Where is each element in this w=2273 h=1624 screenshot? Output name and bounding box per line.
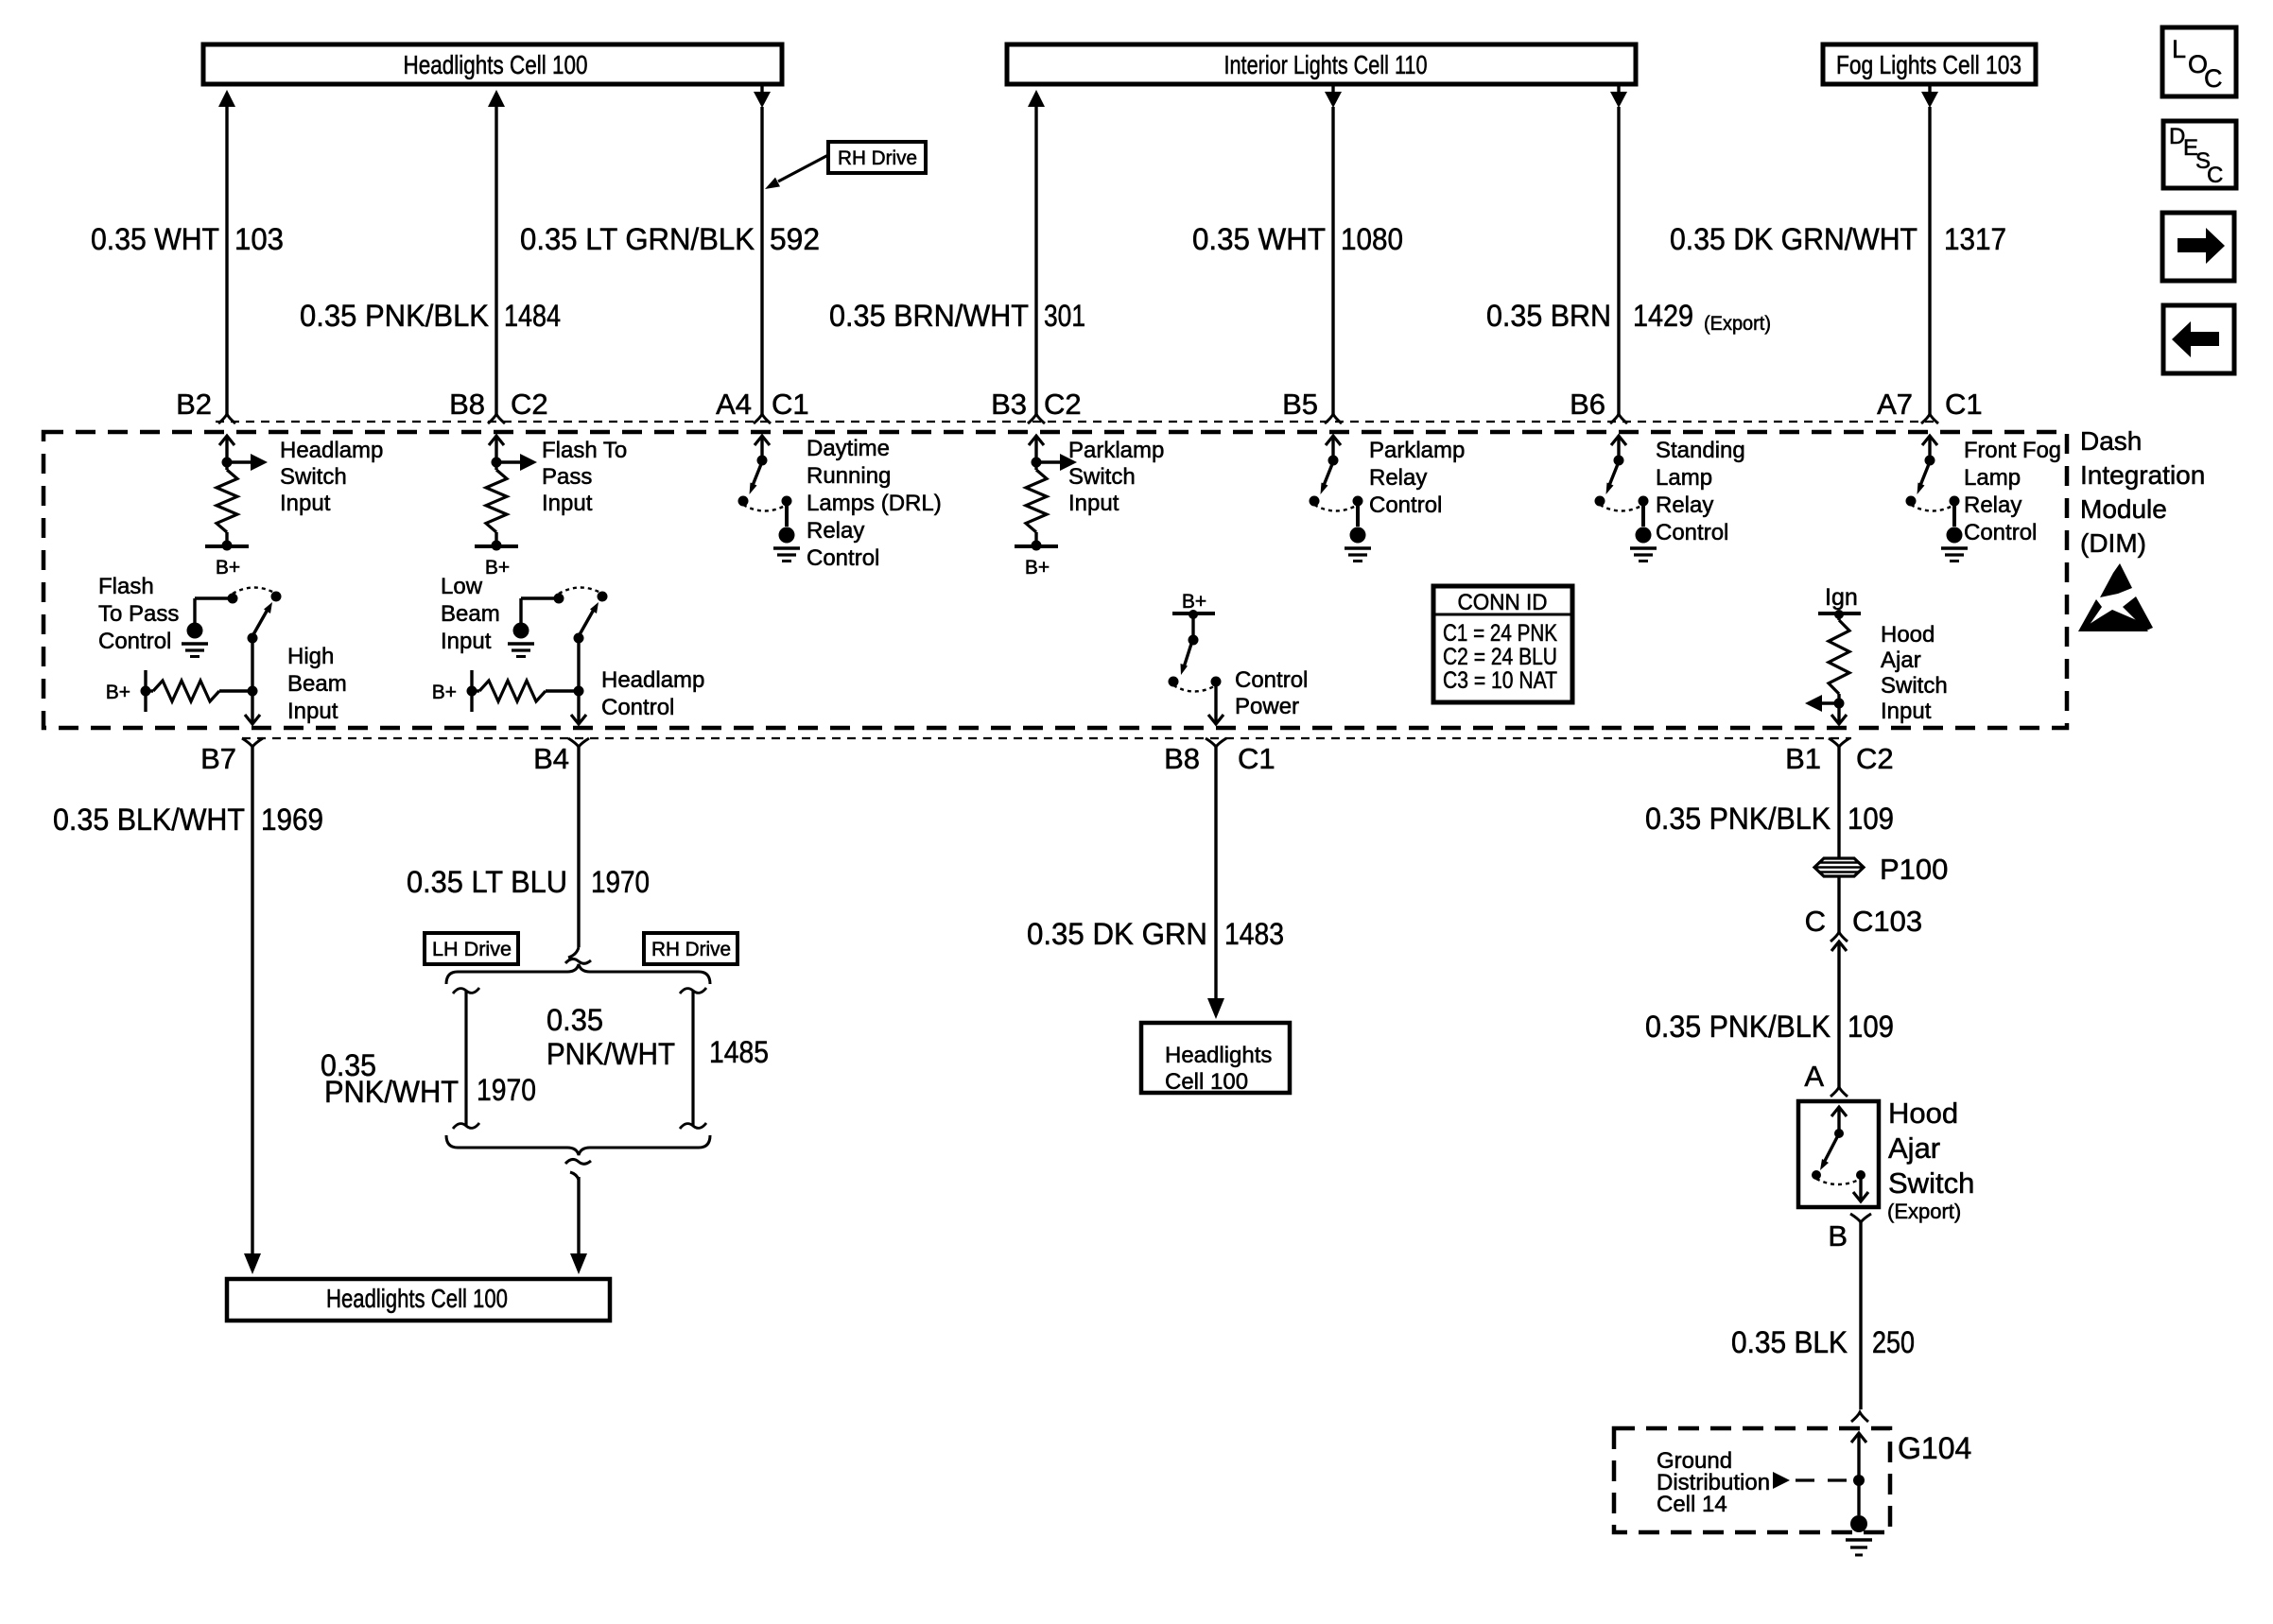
svg-text:A7: A7: [1877, 388, 1913, 421]
text: Headlamp Switch Input: [280, 438, 383, 516]
box: Hood Ajar Switch: [1798, 1101, 1879, 1207]
svg-text:Headlights: Headlights: [1165, 1043, 1272, 1068]
svg-text:Input: Input: [287, 699, 338, 724]
svg-text:1429: 1429: [1633, 299, 1693, 333]
wire label 0.35 DK GRN 1483: [1027, 917, 1284, 951]
svg-text:Module: Module: [2080, 494, 2167, 524]
pin label(s) B8/C1: [1164, 742, 1275, 775]
svg-text:C2: C2: [1856, 742, 1894, 775]
svg-text:Relay: Relay: [1369, 465, 1427, 491]
svg-text:(Export): (Export): [1704, 313, 1771, 335]
svg-text:B3: B3: [991, 388, 1027, 421]
wire from brace to Headlights Cell 100: [565, 1159, 591, 1274]
box: Headlights Cell 100 (top): [203, 44, 782, 84]
connector fork at hood ajar switch pin B: [1850, 1214, 1871, 1222]
svg-text:Relay: Relay: [807, 518, 864, 544]
wire label 0.35 BLK/WHT 1969: [53, 803, 323, 837]
wire B1/C2 down to P100: [1837, 747, 1840, 858]
svg-text:Ajar: Ajar: [1881, 648, 1921, 673]
svg-text:Input: Input: [542, 491, 593, 516]
svg-text:C1: C1: [772, 388, 809, 421]
ground distribution wire and arrow: [1773, 1433, 1866, 1489]
front fog lamp relay control (A7/C1): switch to ground: [1906, 436, 1969, 561]
svg-text:C3 = 10 NAT: C3 = 10 NAT: [1443, 667, 1557, 694]
connector fork at DIM top for B3C2: [1028, 414, 1045, 423]
pin label(s) B4: [533, 742, 569, 775]
pin label(s) B3/C2: [991, 388, 1082, 421]
wire B to G104: [1859, 1222, 1862, 1409]
svg-text:1317: 1317: [1944, 222, 2006, 256]
box: Headlights Cell 100 (middle): [1141, 1023, 1290, 1095]
svg-text:0.35 BRN: 0.35 BRN: [1486, 299, 1611, 333]
svg-text:High: High: [287, 644, 334, 669]
text: Hood Ajar Switch Input: [1881, 622, 1948, 724]
wire label 0.35 DK GRN/WHT 1317: [1670, 222, 2006, 256]
svg-text:Hood: Hood: [1888, 1097, 1958, 1130]
P100 label and symbol: [1814, 853, 1948, 886]
svg-text:Headlights Cell 100: Headlights Cell 100: [404, 50, 588, 79]
text: Front Fog Lamp Relay Control: [1964, 438, 2061, 545]
daytime running lamps (DRL) relay control (A4/C1): switch to ground: [738, 436, 801, 561]
svg-text:Input: Input: [1881, 699, 1932, 724]
svg-text:0.35 BRN/WHT: 0.35 BRN/WHT: [829, 299, 1029, 333]
svg-text:A4: A4: [716, 388, 752, 421]
text: Ground Distribution Cell 14: [1657, 1448, 1770, 1517]
svg-text:CONN ID: CONN ID: [1458, 590, 1548, 615]
CONN ID table box: [1433, 586, 1572, 702]
text: Low Beam Input: [441, 574, 500, 654]
connector fork at DIM bottom (B8/C1): [1206, 738, 1226, 747]
svg-text:Parklamp: Parklamp: [1369, 438, 1465, 463]
text: Daytime Running Lamps (DRL) Relay Control: [807, 436, 942, 571]
svg-text:Beam: Beam: [441, 601, 500, 627]
parklamp switch input (B3/C2): input arrow, resistor to B+: [1015, 436, 1077, 551]
svg-text:Cell 14: Cell 14: [1657, 1492, 1727, 1517]
svg-text:Interior Lights Cell 110: Interior Lights Cell 110: [1224, 50, 1428, 79]
svg-text:B8: B8: [1164, 742, 1200, 775]
wire label 0.35 LT GRN/BLK 592: [520, 222, 820, 256]
label B+ under headlamp switch input (B2): [216, 557, 240, 579]
svg-text:B2: B2: [176, 388, 212, 421]
svg-text:C: C: [1805, 905, 1826, 938]
text: Parklamp Relay Control: [1369, 438, 1465, 518]
pin label(s) B5: [1282, 388, 1318, 421]
svg-text:C1: C1: [1238, 742, 1275, 775]
connector fork at G104: [1851, 1412, 1868, 1422]
Dash Integration Module (DIM) dashed boundary: [43, 432, 2067, 728]
connector fork at DIM top for A7C1: [1921, 414, 1938, 423]
svg-text:Relay: Relay: [1964, 492, 2021, 518]
low beam input / headlamp control: control switch with ground: [508, 588, 608, 657]
text: High Beam Input: [287, 644, 347, 724]
text: Flash To Pass Input: [542, 438, 627, 516]
lower brace: [446, 1135, 710, 1155]
svg-text:Lamp: Lamp: [1964, 465, 2021, 491]
wire B2 vertical from top box to DIM: [218, 90, 235, 414]
svg-text:Switch: Switch: [1888, 1166, 1974, 1200]
svg-text:Cell 100: Cell 100: [1165, 1069, 1248, 1095]
svg-text:Control: Control: [601, 695, 674, 720]
svg-text:0.35 PNK/BLK: 0.35 PNK/BLK: [1645, 802, 1831, 836]
callout box RH Drive (lower): [644, 933, 737, 964]
svg-text:0.35 LT BLU: 0.35 LT BLU: [407, 865, 567, 899]
label G104: [1898, 1431, 1971, 1465]
wire B8C2 vertical from top box to DIM: [488, 90, 505, 414]
connector fork at DIM top for B2: [218, 414, 235, 423]
svg-text:B+: B+: [106, 682, 130, 703]
svg-text:103: 103: [234, 222, 284, 256]
svg-text:Control: Control: [98, 629, 171, 654]
svg-text:B4: B4: [533, 742, 569, 775]
wire label 0.35 WHT 103: [91, 222, 284, 256]
flash to pass control / high beam input: resistor from B+ and output to pin: [141, 638, 261, 724]
svg-text:0.35 PNK/BLK: 0.35 PNK/BLK: [1645, 1010, 1831, 1044]
pin label(s) A4/C1: [716, 388, 809, 421]
svg-text:Headlights Cell 100: Headlights Cell 100: [326, 1284, 508, 1313]
svg-text:1080: 1080: [1341, 222, 1403, 256]
callout box RH Drive (top) with arrow to wire A4: [765, 142, 926, 189]
svg-text:C2: C2: [1044, 388, 1082, 421]
svg-text:A: A: [1804, 1060, 1824, 1093]
svg-text:250: 250: [1872, 1325, 1915, 1359]
text: Control Power: [1235, 667, 1308, 719]
svg-text:B+: B+: [432, 682, 457, 703]
svg-text:B+: B+: [1182, 591, 1206, 613]
callout box LH Drive: [425, 933, 518, 964]
text: Headlamp Control: [601, 667, 704, 720]
svg-text:(DIM): (DIM): [2080, 528, 2146, 558]
control power switch from B+: [1169, 591, 1224, 724]
parklamp relay control (B5): switch to ground: [1310, 436, 1372, 561]
pin label(s) B7: [200, 742, 236, 775]
svg-text:RH Drive: RH Drive: [651, 939, 731, 960]
svg-text:Switch: Switch: [1068, 464, 1136, 490]
flash to pass control / high beam input: control switch with ground: [182, 588, 282, 657]
text: Parklamp Switch Input: [1068, 438, 1164, 516]
wire B7 down to Headlights Cell 100: [244, 747, 261, 1274]
svg-text:Hood: Hood: [1881, 622, 1935, 648]
svg-text:RH Drive: RH Drive: [838, 147, 917, 169]
low beam input / headlamp control: resistor from B+ and output to pin: [467, 638, 587, 724]
connector fork at DIM top for A4C1: [754, 414, 771, 423]
wire C103 to A: [1837, 942, 1840, 1087]
wire B8/C1 down to Headlights Cell 100 box: [1207, 747, 1224, 1019]
svg-text:L: L: [2172, 35, 2186, 63]
svg-text:Headlamp: Headlamp: [280, 438, 383, 463]
svg-text:C1: C1: [1945, 388, 1983, 421]
svg-text:109: 109: [1848, 1010, 1894, 1044]
svg-text:0.35 WHT: 0.35 WHT: [91, 222, 219, 256]
svg-text:Low: Low: [441, 574, 483, 599]
svg-text:0.35 BLK/WHT: 0.35 BLK/WHT: [53, 803, 245, 837]
svg-text:Integration: Integration: [2080, 460, 2205, 490]
connector fork at DIM bottom (B4): [568, 738, 589, 747]
text: Standing Lamp Relay Control: [1656, 438, 1745, 545]
svg-text:Input: Input: [1068, 491, 1119, 516]
connector fork at hood ajar switch pin A: [1831, 1087, 1848, 1097]
svg-text:C103: C103: [1852, 905, 1922, 938]
svg-text:Standing: Standing: [1656, 438, 1745, 463]
connector fork at DIM top for B8C2: [488, 414, 505, 423]
label B+ under flash to pass input (B8/C2): [485, 557, 510, 579]
svg-text:0.35 PNK/BLK: 0.35 PNK/BLK: [300, 299, 489, 333]
svg-text:Flash To: Flash To: [542, 438, 627, 463]
svg-text:LH Drive: LH Drive: [432, 939, 512, 960]
svg-text:Control: Control: [1964, 520, 2037, 545]
svg-text:B+: B+: [216, 557, 240, 579]
label B+ left of low beam input / headlamp control resistor: [432, 682, 457, 703]
svg-text:Lamps (DRL): Lamps (DRL): [807, 491, 942, 516]
svg-text:1970: 1970: [591, 865, 650, 899]
pin label B: [1828, 1219, 1848, 1253]
pin label(s) B2: [176, 388, 212, 421]
svg-text:Control: Control: [1656, 520, 1728, 545]
svg-text:C2 = 24 BLU: C2 = 24 BLU: [1443, 644, 1557, 670]
wire label 0.35 BRN 1429: [1486, 299, 1771, 335]
headlamp switch input (B2): input arrow, resistor to B+: [205, 436, 268, 551]
pin label(s) B6: [1570, 388, 1605, 421]
svg-text:Input: Input: [280, 491, 331, 516]
dashed box: Ground Distribution Cell 14: [1614, 1428, 1890, 1532]
wire B3C2 vertical from top box to DIM: [1028, 90, 1045, 414]
svg-text:Input: Input: [441, 629, 492, 654]
connector fork at DIM bottom (B7): [242, 738, 263, 747]
wire B5 vertical from top box to DIM: [1325, 84, 1342, 414]
label: Dash Integration Module (DIM): [2080, 426, 2205, 558]
svg-text:1483: 1483: [1224, 917, 1284, 951]
wire A4C1 vertical from top box to DIM: [754, 84, 771, 414]
svg-text:B8: B8: [449, 388, 485, 421]
svg-text:109: 109: [1848, 802, 1894, 836]
svg-text:Headlamp: Headlamp: [601, 667, 704, 693]
svg-text:Lamp: Lamp: [1656, 465, 1712, 491]
svg-text:B+: B+: [485, 557, 510, 579]
svg-text:B5: B5: [1282, 388, 1318, 421]
svg-text:0.35 DK GRN/WHT: 0.35 DK GRN/WHT: [1670, 222, 1917, 256]
svg-text:Control: Control: [807, 545, 879, 571]
wire label 0.35 WHT 1080: [1192, 222, 1403, 256]
wire label 0.35 LT BLU 1970: [407, 865, 650, 899]
svg-text:(Export): (Export): [1887, 1200, 1961, 1223]
svg-text:Power: Power: [1235, 694, 1299, 719]
svg-text:B1: B1: [1785, 742, 1821, 775]
svg-text:Dash: Dash: [2080, 426, 2142, 456]
wire A7C1 vertical from top box to DIM: [1921, 84, 1938, 414]
wire label 0.35 PNK/BLK 109 (lower): [1645, 1010, 1894, 1044]
label B+ under parklamp switch input (B3/C2): [1025, 557, 1050, 579]
svg-text:Ign: Ign: [1825, 584, 1858, 611]
wire label 0.35 PNK/BLK 1484: [300, 299, 561, 333]
svg-text:1485: 1485: [709, 1035, 769, 1069]
svg-text:Parklamp: Parklamp: [1068, 438, 1164, 463]
svg-text:0.35 WHT: 0.35 WHT: [1192, 222, 1326, 256]
thin dashed connector line (top row): [216, 421, 1940, 423]
svg-text:1969: 1969: [261, 803, 323, 837]
icon box right arrow: [2162, 213, 2234, 281]
connector fork at DIM top for B6: [1610, 414, 1627, 423]
wire label 0.35 PNK/WHT 1970 (left branch): [321, 1048, 536, 1109]
svg-text:1970: 1970: [477, 1073, 536, 1107]
svg-text:Running: Running: [807, 463, 891, 489]
svg-text:To Pass: To Pass: [98, 601, 179, 627]
svg-text:PNK/WHT: PNK/WHT: [547, 1037, 675, 1071]
wire B4 down to break: [565, 747, 591, 963]
svg-text:C1 = 24 PNK: C1 = 24 PNK: [1443, 620, 1557, 647]
text: Hood Ajar Switch (Export): [1887, 1097, 1974, 1223]
connector fork at DIM bottom (B1/C2): [1829, 738, 1849, 747]
box: Interior Lights Cell 110: [1007, 44, 1636, 84]
box: Fog Lights Cell 103: [1823, 44, 2036, 84]
pin label(s) B8/C2: [449, 388, 548, 421]
svg-text:301: 301: [1044, 299, 1085, 333]
ground symbol G104: [1846, 1480, 1872, 1555]
svg-text:Control: Control: [1369, 492, 1442, 518]
flash to pass input (B8/C2): input arrow, resistor to B+: [475, 436, 537, 551]
svg-text:0.35 BLK: 0.35 BLK: [1731, 1325, 1848, 1359]
thin dashed connector line (bottom row): [242, 737, 1851, 739]
svg-text:Switch: Switch: [1881, 673, 1948, 699]
svg-text:Daytime: Daytime: [807, 436, 890, 461]
svg-text:Front Fog: Front Fog: [1964, 438, 2061, 463]
svg-text:PNK/WHT: PNK/WHT: [324, 1075, 459, 1109]
svg-text:0.35 LT GRN/BLK: 0.35 LT GRN/BLK: [520, 222, 755, 256]
icon box LOC: [2162, 27, 2236, 96]
left option bracket: [453, 988, 479, 1129]
svg-text:1484: 1484: [504, 299, 561, 333]
Ign feed with resistor, hood ajar switch input: [1805, 584, 1861, 724]
box: Headlights Cell 100 (bottom): [227, 1279, 610, 1321]
pin label(s) B1/C2: [1785, 742, 1894, 775]
svg-text:Relay: Relay: [1656, 492, 1713, 518]
wire B6 vertical from top box to DIM: [1610, 84, 1627, 414]
svg-text:P100: P100: [1880, 853, 1948, 886]
upper brace: [446, 964, 710, 984]
wire P100 to C103: [1837, 876, 1840, 932]
svg-text:B+: B+: [1025, 557, 1050, 579]
svg-text:Fog Lights Cell 103: Fog Lights Cell 103: [1836, 50, 2021, 79]
label B+ left of flash to pass control / high beam input resistor: [106, 682, 130, 703]
svg-text:Ajar: Ajar: [1888, 1132, 1940, 1165]
in-line connector C103: [1805, 905, 1923, 951]
svg-text:B7: B7: [200, 742, 236, 775]
wire label 0.35 BRN/WHT 301: [829, 299, 1085, 333]
svg-text:0.35: 0.35: [547, 1003, 603, 1037]
svg-text:Switch: Switch: [280, 464, 347, 490]
standing lamp relay control (B6): switch to ground: [1595, 436, 1657, 561]
svg-text:Control: Control: [1235, 667, 1308, 693]
connector fork at DIM top for B5: [1325, 414, 1342, 423]
svg-text:B6: B6: [1570, 388, 1605, 421]
svg-text:592: 592: [770, 222, 820, 256]
pin label(s) A7/C1: [1877, 388, 1983, 421]
svg-text:Pass: Pass: [542, 464, 592, 490]
wire label 0.35 PNK/WHT 1485 (right branch): [547, 1003, 769, 1071]
svg-text:Beam: Beam: [287, 671, 347, 697]
ESD sensitivity symbol: [2078, 563, 2153, 631]
right option bracket: [680, 988, 706, 1129]
text: Flash To Pass Control: [98, 574, 179, 654]
icon box left arrow: [2163, 305, 2234, 373]
svg-text:0.35 DK GRN: 0.35 DK GRN: [1027, 917, 1207, 951]
svg-text:B: B: [1828, 1219, 1848, 1253]
svg-text:Flash: Flash: [98, 574, 154, 599]
wire label 0.35 BLK 250: [1731, 1325, 1915, 1359]
svg-text:C: C: [2204, 64, 2223, 93]
wire label 0.35 PNK/BLK 109 (upper): [1645, 802, 1894, 836]
svg-text:C: C: [2207, 163, 2223, 188]
icon box DESC: [2163, 121, 2236, 188]
pin label A: [1804, 1060, 1824, 1093]
svg-text:C2: C2: [511, 388, 548, 421]
svg-text:G104: G104: [1898, 1431, 1971, 1465]
